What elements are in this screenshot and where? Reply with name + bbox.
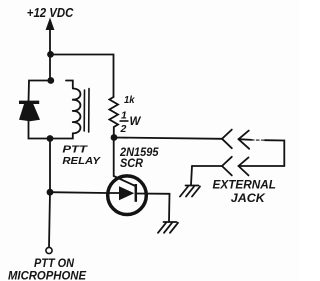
- svg-text:1: 1: [121, 110, 127, 122]
- svg-text:1k: 1k: [124, 95, 136, 106]
- svg-text:2: 2: [120, 123, 127, 135]
- svg-text:MICROPHONE: MICROPHONE: [8, 269, 87, 281]
- svg-text:JACK: JACK: [231, 191, 266, 205]
- svg-text:W: W: [130, 116, 142, 128]
- svg-text:+12 VDC: +12 VDC: [27, 6, 74, 20]
- svg-text:PTT: PTT: [62, 145, 87, 156]
- svg-text:EXTERNAL: EXTERNAL: [213, 178, 277, 192]
- svg-text:RELAY: RELAY: [62, 156, 101, 167]
- svg-text:SCR: SCR: [120, 156, 143, 170]
